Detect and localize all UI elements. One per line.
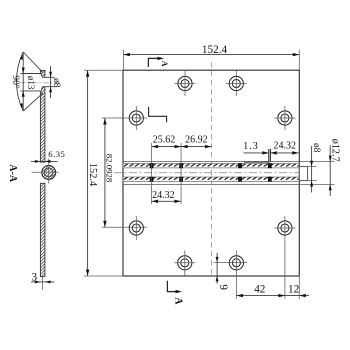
svg-text:90°: 90° (10, 75, 21, 89)
svg-text:25.62: 25.62 (153, 134, 176, 145)
svg-text:A: A (160, 61, 169, 67)
svg-text:A-A: A-A (7, 164, 18, 183)
svg-text:24.32: 24.32 (273, 141, 296, 152)
svg-text:1.3: 1.3 (243, 141, 259, 152)
svg-text:152.4: 152.4 (87, 163, 98, 187)
svg-text:82.0928: 82.0928 (104, 154, 114, 183)
svg-text:A: A (173, 297, 184, 305)
svg-text:9: 9 (217, 284, 229, 290)
svg-text:152.4: 152.4 (202, 44, 228, 56)
svg-text:ø13: ø13 (26, 76, 36, 90)
svg-text:ø8: ø8 (51, 78, 62, 88)
svg-text:12: 12 (288, 284, 299, 296)
svg-text:ø8: ø8 (311, 143, 321, 153)
svg-text:24.32: 24.32 (152, 190, 175, 201)
svg-text:6.35: 6.35 (48, 149, 65, 159)
svg-text:42: 42 (254, 284, 265, 296)
svg-text:ø12.7: ø12.7 (330, 139, 341, 162)
svg-text:3: 3 (32, 271, 38, 283)
svg-text:26.92: 26.92 (185, 134, 208, 145)
